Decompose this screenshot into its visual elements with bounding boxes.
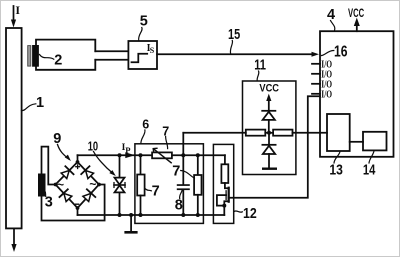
VCC arrow on box 4 bbox=[356, 25, 358, 32]
bridge diode top-left bbox=[60, 166, 74, 180]
svg-text:5: 5 bbox=[140, 14, 148, 30]
label 15 leader bbox=[230, 41, 232, 54]
clamp diode D-top (to VCC) bbox=[262, 110, 275, 112]
gate wire bbox=[217, 195, 226, 206]
top rail (Ip) bbox=[78, 154, 153, 156]
wire pair sensor 2 to comparator 5 bbox=[95, 50, 128, 52]
svg-text:~: ~ bbox=[57, 177, 64, 191]
filter box 6 bbox=[135, 144, 204, 224]
label - (bridge) bbox=[76, 203, 79, 205]
label 10 leader arrow bbox=[94, 152, 113, 174]
transistor Q gate bar bbox=[225, 191, 227, 200]
svg-text:9: 9 bbox=[53, 131, 61, 147]
label 6 leader bbox=[141, 130, 145, 144]
wire between resistors bbox=[265, 132, 273, 134]
svg-text:7: 7 bbox=[172, 164, 180, 180]
svg-text:I/O: I/O bbox=[321, 89, 332, 101]
svg-text:8: 8 bbox=[175, 198, 183, 214]
I/O pin tick 2 bbox=[312, 73, 320, 75]
label 14 leader bbox=[369, 151, 374, 163]
ground bar in box 11 bbox=[262, 168, 277, 170]
suppressor diode 10 bbox=[119, 155, 121, 177]
bottom rail bbox=[78, 214, 225, 216]
label 5 leader bbox=[139, 28, 143, 41]
svg-text:VCC: VCC bbox=[348, 8, 364, 20]
label 7 leader (left resistor) bbox=[145, 189, 151, 191]
label 4 leader bbox=[331, 21, 335, 31]
secondary winding 3 (black bar) bbox=[38, 174, 46, 197]
signal wire 15 to microcontroller 4 bbox=[157, 53, 313, 55]
wire 13 to 14 bbox=[350, 141, 363, 143]
current limiter box 12 bbox=[213, 144, 233, 223]
node junction in 11 bbox=[267, 131, 271, 135]
label 12 leader (tilde) bbox=[234, 211, 242, 212]
resistor 7 right (vertical) bbox=[197, 155, 199, 175]
wire drop from y132.8 to top rail bbox=[182, 133, 184, 155]
svg-text:7: 7 bbox=[152, 184, 160, 200]
svg-text:3: 3 bbox=[45, 195, 53, 211]
svg-text:S: S bbox=[150, 46, 155, 55]
label 3 leader bbox=[45, 191, 46, 197]
label 13 leader bbox=[334, 152, 340, 164]
source wire bbox=[224, 201, 228, 215]
series resistor left (in 11) bbox=[246, 130, 265, 136]
label 9 leader arrow bbox=[58, 145, 69, 159]
svg-text:6: 6 bbox=[142, 118, 149, 132]
label 8 leader bbox=[180, 191, 182, 199]
wire winding top to bridge left bbox=[42, 147, 56, 185]
current arrow (bottom of busbar) bbox=[13, 228, 15, 246]
variable resistor 7 (on rail) bbox=[152, 152, 172, 158]
node dot bridge left bbox=[54, 183, 58, 187]
label 11 leader bbox=[257, 71, 259, 81]
svg-text:14: 14 bbox=[363, 162, 376, 178]
protection network box 11 bbox=[243, 81, 296, 175]
block 14 inside 4 bbox=[363, 132, 387, 151]
capacitor 8 bbox=[182, 155, 184, 184]
I/O pin tick 4 bbox=[312, 93, 320, 95]
rectifier bridge 9 : diamond bbox=[56, 162, 100, 208]
svg-text:VCC: VCC bbox=[259, 83, 279, 95]
node dots diode 10 bbox=[118, 153, 122, 157]
label 7 leader (variable resistor) bbox=[166, 137, 168, 149]
wire bridge top to rail bbox=[77, 155, 79, 162]
wire from node A to box 11 resistors bbox=[183, 132, 246, 134]
comparator box 5 bbox=[128, 41, 157, 69]
node dot bridge right bbox=[97, 183, 101, 187]
VCC arrow in box 11 bbox=[268, 100, 270, 111]
I/O pin tick 1 bbox=[312, 63, 320, 65]
ground tap on bottom rail bbox=[130, 215, 132, 231]
resistor in box 12 bbox=[221, 164, 228, 183]
svg-text:2: 2 bbox=[54, 53, 62, 69]
clamp diode D-bottom (from ground) bbox=[268, 133, 270, 145]
step symbol inside 5 bbox=[132, 54, 148, 63]
svg-text:4: 4 bbox=[327, 7, 335, 23]
bridge diode top-right bbox=[81, 166, 95, 180]
svg-text:7: 7 bbox=[162, 124, 169, 138]
block 13 inside 4 bbox=[327, 114, 350, 151]
output wire Q to box 4 (I/O) bbox=[229, 96, 320, 198]
svg-text:~: ~ bbox=[89, 177, 96, 191]
bridge diode bottom-right bbox=[82, 189, 96, 202]
node dot bridge bottom bbox=[76, 206, 80, 210]
svg-text:11: 11 bbox=[254, 58, 266, 74]
bridge diode bottom-left bbox=[59, 189, 73, 202]
wire bridge bottom to rail bbox=[77, 208, 79, 215]
svg-text:1: 1 bbox=[36, 95, 44, 111]
rail into box 12, drop to resistor bbox=[224, 155, 226, 164]
label 2 leader bbox=[40, 55, 54, 60]
svg-text:I: I bbox=[15, 3, 20, 17]
svg-text:15: 15 bbox=[228, 27, 240, 43]
label + (bridge) bbox=[76, 166, 80, 168]
label 7 leader (right resistor) bbox=[181, 171, 195, 179]
sensor box 2 (with right-side notch) bbox=[36, 40, 95, 70]
wire box 11 to block 13 bbox=[293, 132, 328, 134]
series resistor right (in 11) bbox=[273, 130, 292, 136]
svg-text:12: 12 bbox=[243, 206, 257, 222]
node dot bridge top bbox=[76, 160, 80, 164]
microcontroller box 4 bbox=[320, 31, 394, 157]
label 16 leader bbox=[322, 51, 334, 56]
wire winding bottom to bridge right bbox=[42, 185, 105, 221]
sensor element 2 (black bar) bbox=[32, 45, 39, 67]
label 1 leader bbox=[22, 104, 36, 111]
svg-text:10: 10 bbox=[88, 139, 98, 153]
svg-text:16: 16 bbox=[334, 43, 348, 60]
conductor busbar 1 bbox=[6, 28, 22, 228]
current arrow I (top) bbox=[13, 6, 15, 22]
I/O pin tick 3 bbox=[312, 83, 320, 85]
transistor Q channel bar bbox=[228, 188, 230, 202]
drain jog wire bbox=[225, 183, 229, 188]
resistor 7 left (vertical) bbox=[140, 155, 142, 174]
svg-text:13: 13 bbox=[329, 162, 343, 178]
magnetic core (grey bar) of sensor 2 bbox=[28, 46, 31, 67]
gate-source node dot bbox=[222, 204, 226, 208]
